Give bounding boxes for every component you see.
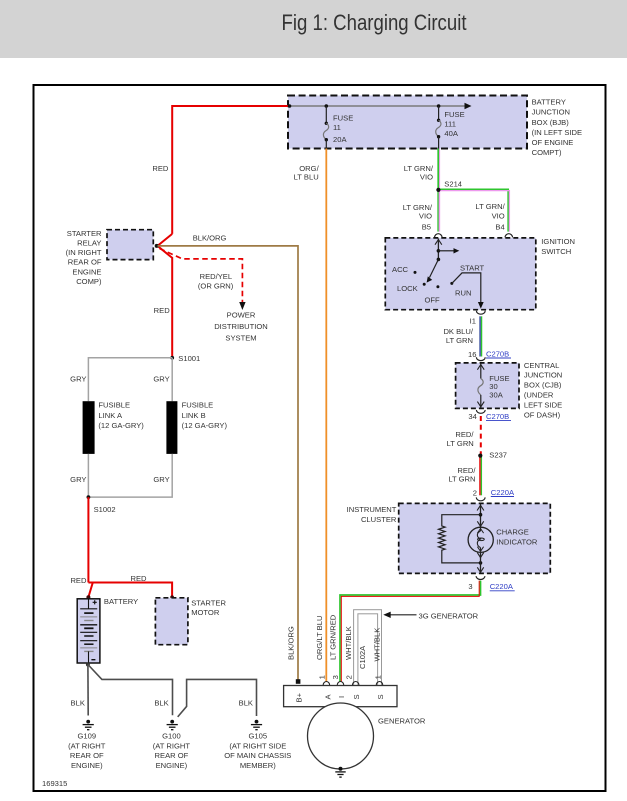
svg-text:LT GRN: LT GRN [446,336,473,345]
svg-text:S1001: S1001 [178,354,200,363]
svg-text:GRY: GRY [70,475,86,484]
svg-text:C102A: C102A [358,645,367,669]
splice S1002 [87,495,116,514]
svg-text:IGNITION: IGNITION [541,237,575,246]
svg-text:WHT/BLK: WHT/BLK [344,626,353,660]
svg-text:COMP): COMP) [76,277,102,286]
svg-text:VIO: VIO [419,212,432,221]
connector C220A pin 3 [468,576,514,591]
svg-text:S237: S237 [489,451,507,460]
svg-text:GRY: GRY [153,475,169,484]
svg-text:G100: G100 [162,731,181,740]
svg-text:OF DASH): OF DASH) [524,410,561,419]
connector C270B pin 16 [468,349,511,360]
svg-text:I: I [337,696,346,698]
generator body [308,703,426,769]
svg-text:CENTRAL: CENTRAL [524,361,559,370]
svg-text:3: 3 [468,582,472,591]
wire RED S1002 to battery [70,497,92,596]
connector C220A pin 2 [473,488,515,501]
svg-text:C270B: C270B [486,412,509,421]
cluster feed wire [477,504,484,527]
svg-text:FUSE: FUSE [444,110,464,119]
svg-text:LT BLU: LT BLU [294,172,319,181]
svg-text:GRY: GRY [70,375,86,384]
connector C270B pin 34 [468,410,511,421]
splice S214 [436,179,462,192]
node at battery negative [86,663,90,667]
svg-text:S1002: S1002 [94,505,116,514]
title banner [0,0,627,58]
svg-text:S: S [376,694,385,699]
svg-text:(UNDER: (UNDER [524,391,554,400]
cluster exit wire [477,552,483,572]
svg-text:FUSE: FUSE [333,114,353,123]
ignition switch position contacts [392,264,485,305]
connector dome B4 [505,234,512,238]
svg-text:RUN: RUN [455,289,471,298]
svg-text:S214: S214 [444,179,462,188]
instrument cluster [347,503,551,573]
node at starter motor [170,595,174,599]
svg-text:(12 GA-GRY): (12 GA-GRY) [98,421,144,430]
svg-text:ENGINE): ENGINE) [71,761,103,770]
svg-text:RED: RED [154,306,171,315]
svg-text:STARTER: STARTER [191,598,226,607]
svg-text:FUSIBLE: FUSIBLE [98,401,130,410]
svg-text:SWITCH: SWITCH [541,247,571,256]
svg-text:1: 1 [373,675,382,679]
battery junction box BJB [288,96,582,158]
svg-text:START: START [460,264,485,273]
fusible link A [83,401,145,454]
svg-text:CLUSTER: CLUSTER [361,515,397,524]
wire RED/YEL (OR GRN) to power distribution [160,249,246,311]
svg-text:BLK: BLK [154,698,168,707]
svg-text:LEFT SIDE: LEFT SIDE [524,400,562,409]
connector dome generator I [337,681,344,685]
svg-text:G105: G105 [249,731,268,740]
ignition switch U-ignition [385,237,575,310]
wire LT GRN/RED C220A to generator I [340,581,481,682]
svg-text:BLK: BLK [71,698,85,707]
svg-text:B5: B5 [422,223,431,232]
svg-text:34: 34 [468,412,476,421]
svg-text:3: 3 [331,675,340,679]
node power distribution system [214,310,268,342]
starter relay [66,229,154,286]
wire LT GRN/VIO S214 to B5 [403,190,440,232]
resistor in cluster [438,515,482,565]
wire RED/LT GRN S237 to C220A [448,456,481,496]
ground G105 [224,720,291,771]
svg-text:I1: I1 [470,317,476,326]
svg-text:LT GRN/RED: LT GRN/RED [329,614,338,660]
ground G109 [68,720,106,771]
svg-text:(AT RIGHT SIDE: (AT RIGHT SIDE [229,741,286,750]
svg-text:BATTERY: BATTERY [104,597,138,606]
wire BLK battery to G100 [88,665,173,716]
central junction box CJB [456,361,563,420]
svg-text:RED: RED [152,164,169,173]
svg-text:S: S [352,694,361,699]
svg-text:INDICATOR: INDICATOR [496,537,538,546]
battery [77,597,138,663]
fuse F11 20A [323,104,353,148]
svg-text:DK BLU/: DK BLU/ [443,327,473,336]
starter motor [155,598,226,645]
svg-text:BLK/ORG: BLK/ORG [193,233,227,242]
svg-text:JUNCTION: JUNCTION [524,371,562,380]
node at relay [155,244,159,248]
svg-text:B+: B+ [295,692,304,702]
svg-text:16: 16 [468,350,476,359]
svg-text:FUSIBLE: FUSIBLE [182,401,214,410]
svg-text:169315: 169315 [42,779,67,788]
wire GRY link B down to S1002 [88,454,172,497]
connector dome B5 [435,234,442,238]
fusible link B [166,401,227,454]
svg-text:INSTRUMENT: INSTRUMENT [347,505,397,514]
svg-text:DISTRIBUTION: DISTRIBUTION [214,322,268,331]
svg-text:STARTER: STARTER [67,229,102,238]
svg-text:REAR OF: REAR OF [155,751,189,760]
svg-text:CHARGE: CHARGE [496,528,529,537]
svg-text:111: 111 [444,120,456,129]
svg-text:LINK B: LINK B [182,411,206,420]
svg-text:LT GRN: LT GRN [448,474,475,483]
svg-text:LINK A: LINK A [98,411,123,420]
svg-text:BATTERY: BATTERY [532,98,566,107]
svg-text:OF MAIN CHASSIS: OF MAIN CHASSIS [224,751,291,760]
svg-text:VIO: VIO [492,211,505,220]
svg-text:(12 GA-GRY): (12 GA-GRY) [182,421,228,430]
svg-text:BLK/ORG: BLK/ORG [287,626,296,660]
fuse F111 40A [436,104,465,148]
splice S1001 [170,354,200,363]
svg-text:(IN RIGHT: (IN RIGHT [66,248,102,257]
wire ORG/LT BLU from fuse 11 to generator A [294,149,327,682]
wire GRY link A down [70,454,88,497]
ground G100 [153,720,191,771]
svg-text:REAR OF: REAR OF [70,751,104,760]
svg-text:C270B: C270B [486,349,509,358]
wire GRY S1001 branch left [70,358,172,401]
svg-text:(IN LEFT SIDE: (IN LEFT SIDE [532,128,583,137]
svg-text:RED/: RED/ [455,430,474,439]
svg-text:RELAY: RELAY [77,239,101,248]
svg-text:COMPT): COMPT) [532,148,562,157]
svg-text:ENGINE: ENGINE [72,267,101,276]
connector C102A white wire loop WHT/BLK [354,610,382,686]
svg-text:BLK: BLK [239,698,253,707]
svg-text:RED: RED [131,574,148,583]
svg-text:40A: 40A [444,129,458,138]
wire RED relay jog [154,234,173,358]
diagram id 169315 [42,779,67,788]
svg-text:(AT RIGHT: (AT RIGHT [153,741,191,750]
generator terminal strip [284,686,397,707]
svg-text:2: 2 [473,488,477,497]
wire LT GRN/VIO fuse 111 to S214 [404,149,440,190]
wire DK BLU/LT GRN I1 to C270B [443,316,481,356]
svg-text:JUNCTION: JUNCTION [532,108,570,117]
wire GRY S1001 down [153,358,172,401]
wire BLK/ORG relay to generator B+ [158,233,299,681]
generator B+ terminal stud [296,679,301,684]
svg-text:Fig 1: Charging Circuit: Fig 1: Charging Circuit [282,10,467,35]
svg-text:3G GENERATOR: 3G GENERATOR [419,611,479,620]
svg-text:RED: RED [70,576,87,585]
svg-text:B4: B4 [495,223,504,232]
svg-text:MEMBER): MEMBER) [240,761,276,770]
connector dome generator S pin1 [376,681,383,685]
svg-text:BOX (BJB): BOX (BJB) [532,118,570,127]
BJB internal bus wire [288,103,472,109]
ignition switch internal wiper feed [427,239,460,283]
vertical wire labels at generator [287,626,296,660]
svg-text:ORG/LT BLU: ORG/LT BLU [315,616,324,660]
ignition switch start contact wire [452,273,484,309]
wire RED branch to starter motor [88,574,172,597]
svg-text:(OR GRN): (OR GRN) [198,281,234,290]
svg-text:LT GRN/: LT GRN/ [475,202,505,211]
svg-text:GRY: GRY [153,375,169,384]
svg-text:POWER: POWER [227,310,256,319]
splice S237 [478,451,507,460]
svg-text:OFF: OFF [425,295,441,304]
svg-text:VIO: VIO [420,172,433,181]
svg-text:REAR OF: REAR OF [68,258,102,267]
connector dome generator S pin2 [352,681,359,685]
svg-text:WHT/BLK: WHT/BLK [373,628,382,662]
svg-text:GENERATOR: GENERATOR [378,716,426,725]
wire BLK battery to G109 [71,665,89,716]
svg-text:2: 2 [344,675,353,679]
svg-text:C220A: C220A [490,582,514,591]
fuse F30 30A [477,364,509,408]
connector dome generator A [323,681,330,685]
generator pin numbers [317,675,326,679]
wire label 3G generator callout [383,611,478,620]
svg-text:30A: 30A [489,391,503,400]
wire RED feed to BJB [152,106,289,234]
ground at generator [335,767,345,777]
wire LT GRN/VIO S214 to B4 [439,189,510,231]
svg-text:LT GRN/: LT GRN/ [403,203,433,212]
svg-text:OF ENGINE: OF ENGINE [532,138,574,147]
connector cup I1 [476,311,485,314]
svg-text:C220A: C220A [491,488,515,497]
svg-text:20A: 20A [333,135,347,144]
svg-text:11: 11 [333,123,341,132]
charge indicator lamp [468,527,538,552]
svg-text:LT GRN: LT GRN [447,439,474,448]
wire BLK G100 to G105 [178,679,257,717]
svg-text:LOCK: LOCK [397,284,418,293]
svg-text:ENGINE): ENGINE) [156,761,188,770]
svg-text:RED/YEL: RED/YEL [200,272,233,281]
node at battery positive [86,595,90,599]
wire RED/LT GRN dashed C270B to S237 [447,416,481,456]
svg-text:SYSTEM: SYSTEM [225,334,256,343]
svg-text:BOX (CJB): BOX (CJB) [524,381,562,390]
svg-text:G109: G109 [78,731,97,740]
svg-text:(AT RIGHT: (AT RIGHT [68,741,106,750]
svg-text:ACC: ACC [392,265,409,274]
svg-text:1: 1 [317,675,326,679]
svg-text:MOTOR: MOTOR [191,608,220,617]
